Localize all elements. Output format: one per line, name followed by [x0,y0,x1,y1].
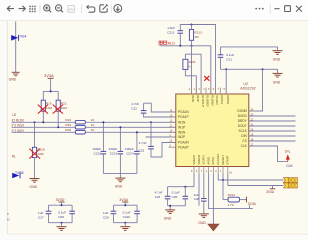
node group2 top [124,204,126,206]
ground group1 [57,223,67,231]
svg-text:100pF: 100pF [109,147,118,151]
capacitor C24 4.7uF [155,187,171,206]
wire electrode line1 [12,121,76,123]
node RLD wire left [179,45,181,47]
U2 right pin names [237,109,247,148]
resistor R213 1M [189,25,202,46]
svg-text:RLDREF: RLDREF [206,95,210,107]
wire RESET drop [222,174,224,181]
toolbar separator [39,5,41,14]
svg-text:C27: C27 [38,216,44,220]
wire DVDD bus [249,115,296,117]
wire AVDD drop [209,174,253,209]
test point TP1 [285,150,291,162]
svg-text:C29: C29 [103,216,109,220]
resistor R212 4.7K [223,180,247,207]
U2 right pin numbers [251,108,254,146]
wire AVSS drop [212,174,214,225]
wire RLD top rail [180,25,215,95]
node group2 bottom [124,222,126,224]
svg-text:GND: GND [30,185,38,189]
wire TVS4 vertical [15,22,17,73]
wire DOUT bus [249,125,296,127]
wire CLK to testpoint [249,146,288,161]
ground top right 1 [273,51,283,62]
toolbar window maximize [285,6,291,12]
wire VREF cap bottom rail [168,205,186,207]
node DGND rail right [262,68,264,70]
wire VREFP drop [193,174,195,187]
svg-text:DVDD: DVDD [238,114,248,118]
capacitor C26 1uF [194,174,207,214]
svg-text:C211: C211 [167,30,174,34]
ground top right 2 [273,73,283,84]
capacitor C23 4.7nF [139,121,176,157]
toolbar icon image (disabled) [68,6,75,13]
wire START drop [227,174,229,186]
svg-text:TP1: TP1 [285,150,291,154]
svg-text:F: F [7,212,9,216]
no-fit cross over R16 [38,105,48,114]
wire electrode line3 [12,131,76,133]
ground under TVS4 [12,72,20,75]
node R210 line1 [34,121,36,123]
svg-text:IN2P: IN2P [178,135,185,139]
U2 left pin stubs [169,112,176,147]
svg-text:0.1uF: 0.1uF [58,211,66,215]
resistor R210 10M (DNP) [32,122,45,178]
svg-text:CLK: CLK [286,164,293,168]
svg-text:AVDD: AVDD [206,157,210,165]
svg-text:VREFP: VREFP [192,155,196,165]
svg-text:GND: GND [9,78,17,82]
svg-text:4.7nF: 4.7nF [139,141,147,145]
resistor R24 1K [65,118,95,124]
TVS diode TVS6 [12,171,23,178]
svg-text:PGA2N: PGA2N [178,141,190,145]
svg-text:RL: RL [12,155,16,159]
svg-text:TVS4: TVS4 [18,35,27,39]
toolbar icon zoom in [44,5,52,13]
net label RLD (red) [159,41,167,44]
wire line2 to IC [85,126,176,128]
svg-text:C212: C212 [94,151,102,155]
wire connector row1 [218,179,283,181]
svg-text:U2: U2 [243,82,248,86]
svg-text:LD: LD [12,113,17,117]
svg-text:AVSS: AVSS [211,157,215,165]
wire IN2P line4 [146,136,176,138]
toolbar icon back arrow [7,6,14,12]
toolbar icon edit [100,4,108,12]
svg-text:GND: GND [115,185,123,189]
svg-text:PGA2P: PGA2P [178,145,189,149]
U2 bottom pin stubs [194,167,228,174]
wire group1 bottom rail [49,222,73,224]
svg-text:3V3A: 3V3A [44,73,54,78]
capacitor C214 100pF [125,131,140,173]
svg-text:IN2N: IN2N [178,131,186,135]
svg-text:CLK: CLK [241,144,248,148]
resistor R26 1K [65,128,95,134]
wire CS bus [249,140,296,142]
capacitor C28 0.1uF [58,205,75,223]
ground under R210 [30,179,40,190]
power port 3V3A at R212 [247,197,257,206]
node top rail [191,24,193,26]
svg-text:RLDINV: RLDINV [211,95,215,106]
svg-text:10M: 10M [37,152,43,156]
wire line3 to IC [85,131,176,133]
capacitor C25 0.1uF [172,186,189,206]
svg-text:RESET: RESET [221,155,225,165]
toolbar icon rotate [87,5,95,12]
svg-text:0.1uF: 0.1uF [172,190,180,194]
wire connector row2 [228,185,284,187]
power port 3V3A group2 [119,198,128,205]
wire VREF rail [168,186,194,188]
svg-text:CLKSEL: CLKSEL [216,153,220,164]
wire group2 top rail [114,204,138,206]
svg-text:C25: C25 [172,195,178,199]
svg-text:GND: GND [273,58,281,62]
capacitor C212 100pF [92,121,106,173]
node group1 bottom [61,222,63,224]
svg-text:SCLK: SCLK [238,129,247,133]
U2 bottom pin names (rotated) [192,153,230,164]
svg-text:GND: GND [164,217,172,221]
resistor R16 10M (DNP) [41,91,52,122]
no-fit cross over R210 [29,149,40,159]
toolbar icon grid [29,6,36,13]
wire group1 top rail [49,204,73,206]
svg-text:START: START [226,155,230,164]
U2 bottom pin numbers [191,170,233,175]
svg-text:0.1uF: 0.1uF [123,211,131,215]
toolbar icon forward arrow [19,6,26,12]
svg-text:TVS6: TVS6 [15,171,24,175]
svg-text:R212: R212 [228,193,236,197]
wire electrode line2 [12,126,76,128]
toolbar separator [110,5,112,14]
capacitor C27 1uF [38,205,51,223]
svg-text:C24: C24 [155,195,161,199]
resistor R211 0R [183,54,201,94]
node RESET row1 [222,179,224,181]
toolbar icon more dots [255,8,263,10]
wire VREFN drop [198,174,200,206]
ground under C213 [115,178,126,189]
wire DRDY bus [249,120,296,122]
svg-text:GPIO1: GPIO1 [220,95,224,104]
svg-text:1uF: 1uF [103,211,108,215]
svg-text:R25: R25 [65,123,71,127]
svg-text:4.7K: 4.7K [228,203,235,207]
svg-text:4.7uF: 4.7uF [155,190,163,194]
power port 3V3D group1 [56,198,65,205]
svg-text:RLD: RLD [168,42,176,46]
wire SCLK bus [249,130,296,132]
wire DIN bus [249,135,296,137]
ground group2 [120,223,130,231]
svg-text:CS: CS [242,139,246,143]
svg-text:3V3D: 3V3D [56,198,65,202]
toolbar icon download [114,4,122,12]
U2 left pin names [178,110,190,149]
svg-text:R211: R211 [189,60,196,64]
power port 3V3A at AVDD [248,205,250,208]
node R22 line2 [57,126,59,128]
capacitor C213 100pF [109,126,124,173]
wire cap bottom rail [103,172,136,174]
wire C21 top to ground [221,47,278,50]
svg-text:3V3A: 3V3A [119,198,128,202]
svg-text:C26: C26 [194,197,200,201]
svg-text:GPIO2: GPIO2 [226,95,230,104]
svg-text:IO RLD0: IO RLD0 [12,118,25,122]
svg-text:1M: 1M [194,35,199,39]
wire RLD net [160,46,211,94]
svg-text:4.7nF: 4.7nF [131,102,139,106]
svg-text:ADS1292: ADS1292 [240,87,255,91]
svg-text:PGA1N: PGA1N [178,110,190,114]
svg-text:DIN: DIN [241,134,247,138]
svg-text:C210: C210 [123,215,131,219]
svg-text:100pF: 100pF [92,147,101,151]
wire DGND rail [221,69,278,73]
toolbar icon zoom out [56,5,64,13]
wire rail to ground [119,173,121,178]
svg-text:DOUT: DOUT [238,124,247,128]
toolbar separator [81,5,83,14]
svg-text:C214: C214 [126,151,134,155]
no-fit cross over R22 [53,105,63,114]
U2 top pin stubs [192,88,227,95]
node pullup rail [50,90,52,92]
sheet bottom border [7,233,308,235]
svg-text:10M: 10M [46,106,52,110]
ground under C26 [198,214,208,225]
svg-text:VCAP2: VCAP2 [215,95,219,105]
capacitor C29 1uF [103,205,116,223]
svg-text:C213: C213 [110,151,118,155]
power port 3V3A pullups [44,73,54,91]
power port 3V3A at connector [266,186,275,195]
sheet left border [6,21,8,234]
svg-text:GND: GND [273,80,281,84]
capacitor C21 0.1uF [218,47,235,69]
toolbar window close [296,6,302,12]
ground under AVSS [208,224,219,231]
left edge clipped label [7,212,10,221]
svg-text:3V3A: 3V3A [266,190,275,194]
toolbar separator [269,4,271,13]
ground under VREF caps [164,210,175,221]
svg-text:1uF: 1uF [194,193,199,197]
svg-text:C23: C23 [139,148,145,152]
wire pin1 riser [191,46,193,94]
node RLD wire right [191,45,193,47]
svg-text:VCAP1: VCAP1 [202,155,206,165]
svg-text:DGND: DGND [237,109,247,113]
node DGND rail GPIO2 [225,68,227,70]
svg-text:C22: C22 [131,107,137,111]
wire GPIO2 riser [225,69,227,94]
svg-text:0.1uF: 0.1uF [226,53,234,57]
connector J pad 1 [283,178,297,183]
resistor R25 1K [65,123,95,129]
toolbar background [0,0,308,21]
svg-text:IN1P: IN1P [178,126,185,130]
svg-text:100pF: 100pF [125,147,134,151]
no-connect cross pin4 [204,76,209,81]
svg-text:RLDOUT: RLDOUT [201,95,205,107]
svg-text:DRDY: DRDY [238,119,248,123]
node R16 line1 [42,121,44,123]
svg-text:1.5nF: 1.5nF [167,26,175,30]
resistor R22 10M (DNP) [56,91,67,127]
svg-text:0: 0 [189,64,191,68]
svg-text:R213: R213 [194,31,202,35]
capacitor C211 1.5nF [167,25,183,46]
wire pullup top rail [43,90,58,92]
wire DGND pin to rail [249,69,263,111]
capacitor C210 0.1uF [123,205,140,223]
wire rail to ground C24 [169,206,171,210]
svg-text:PGA1P: PGA1P [178,115,189,119]
U2 top pin names (rotated) [191,95,230,107]
svg-text:VREFN: VREFN [197,155,201,165]
U2 left pin numbers [170,109,173,147]
svg-text:10M: 10M [61,106,67,110]
TVS diode TVS4 [11,35,26,41]
svg-text:R26: R26 [65,128,71,132]
connector J pad 2 [283,183,297,188]
U2 top pin numbers [189,88,226,91]
svg-text:IN1N: IN1N [178,121,186,125]
node group1 top [61,204,63,206]
svg-text:1uF: 1uF [38,211,43,215]
svg-text:C28: C28 [58,215,64,219]
svg-text:C21: C21 [226,58,232,62]
toolbar window minimize [274,8,279,10]
svg-text:IN3N: IN3N [191,95,195,102]
svg-text:R24: R24 [65,118,71,122]
svg-text:GND: GND [198,221,206,225]
op-amp U2 ADS1292 body [176,82,256,166]
capacitor C22 4.7nF [131,102,176,117]
U2 right pin stubs [249,111,256,146]
wire group2 bottom rail [114,222,138,224]
svg-text:IN3P: IN3P [196,95,200,101]
wire CLKSEL drop [217,174,219,181]
node C24 rail [169,205,171,207]
wire line1 to IC [85,121,176,123]
